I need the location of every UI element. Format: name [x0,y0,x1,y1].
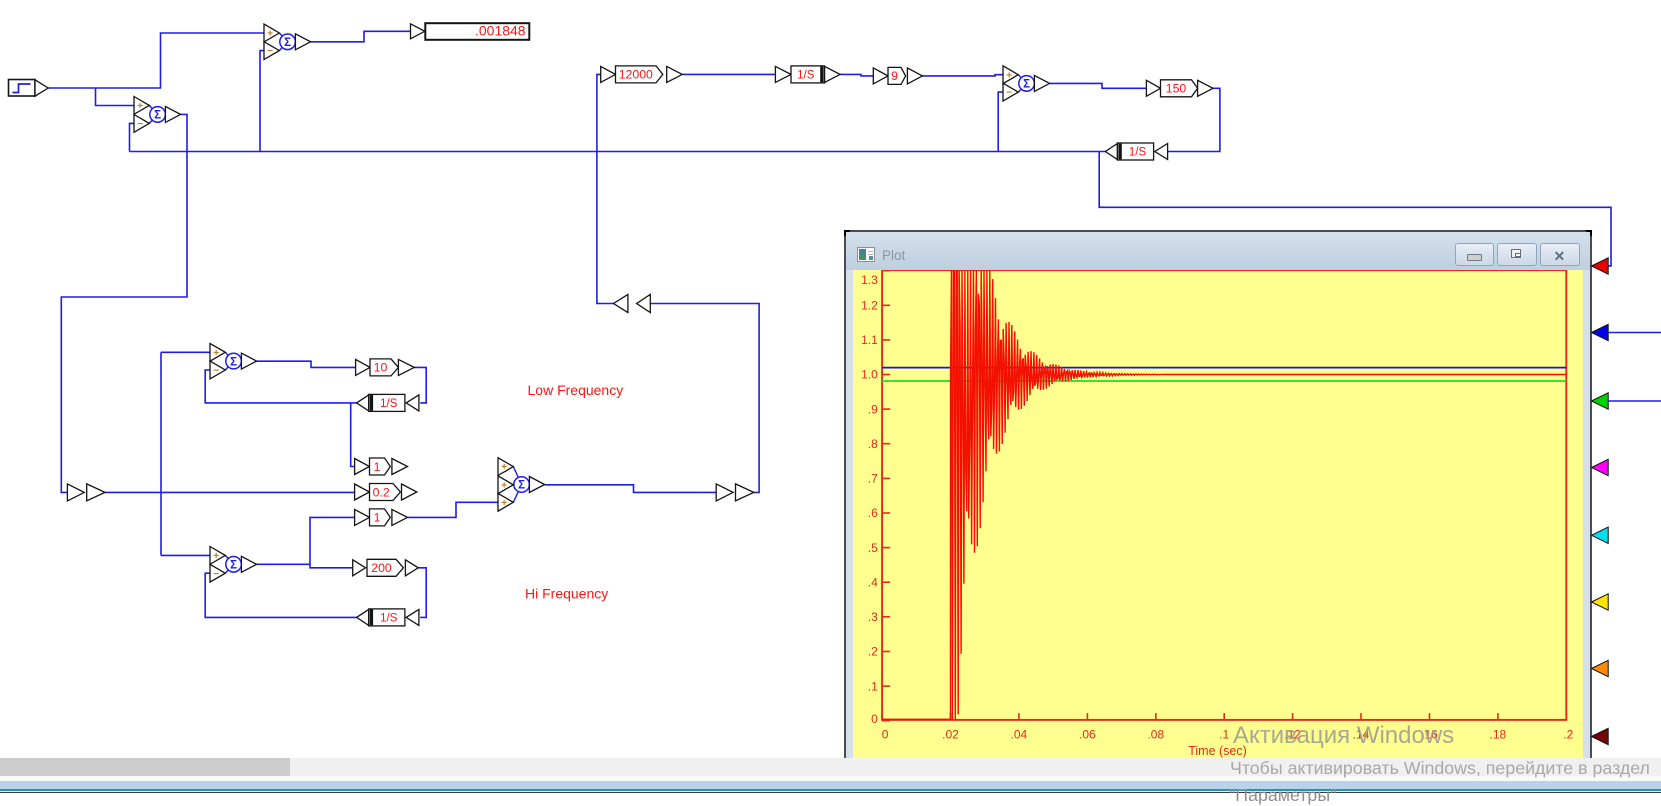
summing junction S6 [1003,66,1050,101]
title bar [846,232,1590,270]
x tick .08 [1154,713,1156,720]
y tick 1.1 [882,338,890,340]
wire: sum S2 out to connector pair A [61,114,187,492]
wire: integrator I2 out to gain 1a [351,403,355,467]
y tick .9 [882,408,890,410]
window border [844,230,1592,232]
watermark line 1 [1233,722,1454,750]
wire: feedback to sum S1 - input [260,51,264,152]
title text [882,248,905,263]
x tick .04 [1017,713,1019,720]
y tick 0 [882,719,890,721]
bottom scrollbar thumb [0,758,290,776]
window icon [857,247,875,263]
wire: gain 10 out to integrator I2 [414,367,426,403]
plot input 5 connector [1592,527,1609,543]
gain K6 = 0.2 [355,484,417,501]
y tick .1 [882,685,890,687]
wire: feedback to sum S2 - input [130,123,135,151]
y tick .8 [882,442,890,444]
summing junction S1 [264,24,311,59]
bottom scrollbar track [0,758,1661,776]
x tick 0 [881,713,883,720]
taskbar teal line [0,789,1661,791]
wire: to sum S3 + input [161,351,210,353]
x tick .02 [949,713,951,720]
taskbar top light blue [0,781,1661,789]
wire: to sum S4 + input [161,554,210,556]
summing junction S3 [210,343,257,379]
wire: sum S3 out to gain 10 [257,361,356,367]
y tick .6 [882,512,890,514]
gain K7 = 1 [355,509,408,526]
display .001848 [411,23,530,40]
summing junction S5 [498,458,545,512]
plot axes frame [882,270,1566,720]
connector pair C [614,294,651,312]
y tick 1.0 [882,373,890,375]
summing junction S4 [210,547,257,583]
summing junction S2 [134,97,181,133]
minimize button [1455,243,1494,266]
gain K5 = 1 [355,458,408,475]
connector pair A [67,484,105,501]
y tick .2 [882,650,890,652]
step input source [9,80,49,97]
wire: gain 150 out to integrator I4 [1167,88,1220,151]
wire: sum S6 out to gain 150 [1050,83,1147,88]
plot input 4 connector [1592,459,1609,475]
wire: main feedback bus [130,151,1106,153]
watermark line 3 (clipped) [1229,785,1336,806]
wire: branch to sum S2 + input [96,88,135,106]
plot graph layer [853,270,1583,758]
green reference line 0.98 [882,380,1566,382]
wire: integrator I3 out to sum S4 - input [205,573,356,617]
y tick .3 [882,615,890,617]
wire: step to sum S1 + input [48,33,264,88]
wire: gain 12000 out to integrator I1 [682,73,775,75]
y tick 1.3 [882,269,890,271]
wire: sum S1 out to display [311,31,411,42]
x tick .06 [1086,713,1088,720]
strip below scrollbar [0,776,1661,782]
wire: gain 200 out to integrator I3 [418,568,426,618]
y tick 1.2 [882,304,890,306]
x tick .18 [1496,713,1498,720]
wire: pair A out to gain 0.2 [105,491,355,493]
taskbar dark bottom [0,792,1661,794]
x tick .1 [1223,713,1225,720]
y tick .7 [882,477,890,479]
wire: sum S4 out to gain 200 [257,564,353,568]
plot input 6 connector [1592,594,1609,610]
wire: plot input 3 from right edge [1608,400,1661,402]
plot input 2 connector [1592,324,1609,340]
wire: vertical tap to sums S3,S4 [160,352,162,555]
gain K2 = 9 [873,67,922,84]
wire: pair B to pair C [650,304,759,493]
wire: integrator I2 out to sum S3 - input [205,370,356,403]
plot input 1 connector [1592,258,1609,274]
wire: sum S4 out to gain 1b [310,517,355,564]
wire: feedback bus to plot input 1 [1099,152,1611,266]
wire: plot input 2 from right edge [1608,332,1661,334]
integrator I2 (1/S, reversed) [357,394,419,411]
connector pair B [716,484,754,501]
gain K8 = 200 [353,559,419,576]
close button [1540,243,1580,266]
integrator I4 (1/S, reversed) [1105,143,1167,160]
plot input 8 connector [1592,728,1609,744]
plot input 3 connector [1592,393,1609,409]
blue reference line 1.02 [882,366,1566,368]
wire: gain 1b out to sum S5 input 3 [408,502,499,517]
plot window [844,230,1592,758]
red response trace [882,270,1566,719]
integrator I1 (1/S) [775,66,840,83]
gain K1 = 12000 [601,66,683,83]
wire: pair C out to gain 12000 [597,74,614,303]
wire: sum S5 out to connector pair B [545,485,716,493]
x tick .14 [1360,713,1362,720]
wire: feedback bus to sum S6 - input [998,92,1003,151]
maximize button [1497,243,1537,266]
integrator I3 (1/S, reversed) [357,609,419,626]
x tick .12 [1291,713,1293,720]
wire: gain 9 out to sum S6 + input [922,75,1003,76]
plot input 7 connector [1592,660,1609,676]
y tick .5 [882,546,890,548]
window client area (yellow) [846,270,1590,758]
x tick .16 [1428,713,1430,720]
watermark line 2 [1230,758,1650,779]
y tick .4 [882,581,890,583]
gain K4 = 10 [356,359,415,376]
wire: integrator I1 out to gain 9 [840,74,873,76]
x tick .2 [1565,713,1567,720]
gain K3 = 150 [1146,80,1213,97]
